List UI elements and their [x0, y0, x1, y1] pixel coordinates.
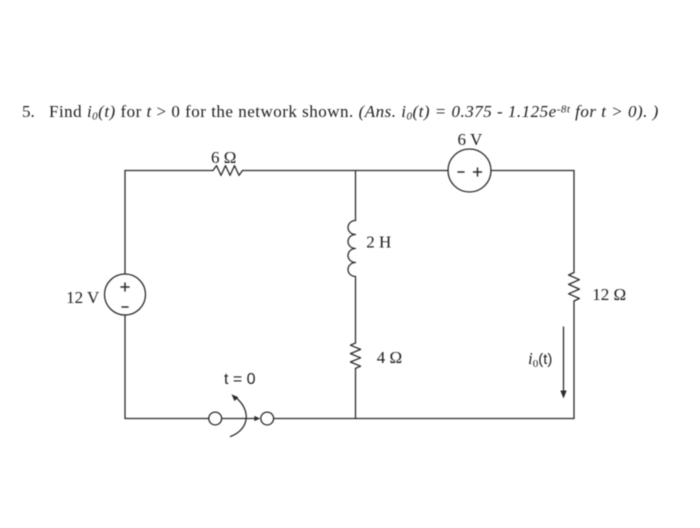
svg-text:12 Ω: 12 Ω	[592, 285, 626, 304]
svg-text:6 Ω: 6 Ω	[211, 148, 236, 167]
svg-text:t = 0: t = 0	[224, 371, 256, 388]
svg-text:12 V: 12 V	[66, 288, 100, 307]
svg-text:i0(t): i0(t)	[528, 349, 552, 370]
svg-text:2 H: 2 H	[366, 232, 391, 251]
svg-text:5.: 5.	[22, 102, 35, 121]
svg-text:6 V: 6 V	[458, 130, 483, 149]
svg-text:4 Ω: 4 Ω	[377, 348, 402, 367]
